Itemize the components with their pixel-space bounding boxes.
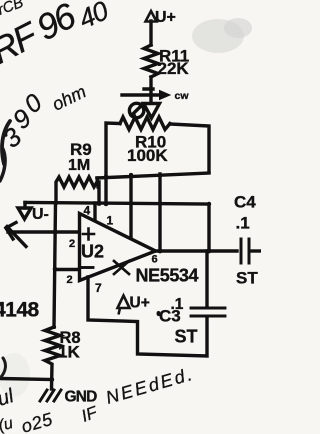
- svg-text:cw: cw: [175, 90, 190, 102]
- svg-text:4148: 4148: [0, 299, 40, 322]
- svg-text:C3: C3: [159, 307, 181, 326]
- svg-text:6: 6: [152, 254, 158, 266]
- svg-text:1: 1: [107, 214, 114, 228]
- svg-text:7: 7: [95, 281, 102, 295]
- svg-text:4: 4: [84, 204, 91, 218]
- svg-text:.1: .1: [236, 214, 250, 233]
- svg-text:NE5534: NE5534: [136, 266, 199, 286]
- svg-text:2: 2: [67, 274, 73, 286]
- svg-text:C4: C4: [234, 193, 256, 212]
- svg-text:U+: U+: [130, 295, 150, 312]
- svg-text:2: 2: [69, 238, 75, 250]
- svg-text:U2: U2: [81, 242, 104, 262]
- svg-text:22K: 22K: [158, 59, 190, 78]
- svg-text:U-: U-: [32, 206, 49, 223]
- svg-text:1K: 1K: [58, 343, 80, 362]
- svg-text:U+: U+: [155, 9, 176, 26]
- svg-text:ST: ST: [175, 327, 198, 347]
- svg-text:100K: 100K: [127, 146, 168, 165]
- svg-text:1M: 1M: [68, 157, 90, 174]
- svg-text:ST: ST: [236, 269, 258, 288]
